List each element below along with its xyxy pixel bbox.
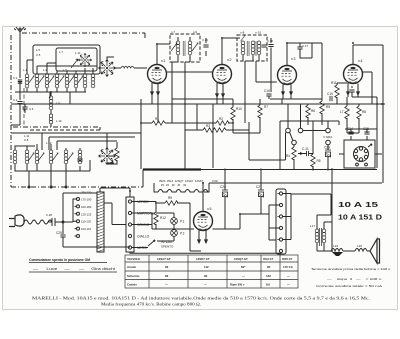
tube V2 12SK7 (213, 65, 232, 84)
vertical x152 V1 pin down (151, 96, 153, 104)
socket pin 3 (364, 155, 367, 158)
svg-text:—: — (287, 274, 290, 278)
svg-text:— Luce — —: — Luce — — Gira dischi (33, 267, 115, 271)
wire to speaker (367, 250, 370, 252)
trimmer C11 (52, 153, 58, 161)
svg-text:#3 #4 #2 #1 #2: #3 #4 #2 #1 #2 (161, 183, 187, 187)
phono socket (354, 147, 369, 162)
vertical x223 (222, 98, 224, 104)
trimmer C mixer (71, 59, 78, 68)
svg-text:C.5: C.5 (36, 53, 41, 57)
junction dot o (140, 122, 142, 124)
wire C16 (268, 97, 270, 100)
coil L7 (83, 74, 87, 88)
svg-text:— dopo il — ≈ 100 v.: — dopo il — ≈ 100 v. (327, 277, 382, 281)
junction dot j (312, 169, 314, 171)
svg-text:L19: L19 (333, 244, 338, 248)
svg-text:SPENTO: SPENTO (161, 245, 174, 249)
wire C29 (63, 222, 130, 247)
capacitor C24 (348, 132, 353, 134)
dash line bottom of front box (13, 126, 100, 128)
tube V3 pins (283, 85, 291, 100)
resistor R3 (203, 128, 226, 132)
wire (19, 82, 21, 100)
label wire corners (42, 133, 57, 150)
svg-text:v.1: v.1 (161, 59, 166, 63)
capacitor C16 (266, 94, 271, 96)
svg-text:Schermo: Schermo (127, 274, 140, 278)
wire osc coil tops (15, 144, 80, 150)
junction dot i (260, 169, 262, 171)
svg-text:—: — (204, 282, 207, 286)
inline capacitor C28 (48, 218, 63, 226)
wire switch (132, 241, 160, 248)
svg-text:R6: R6 (311, 109, 315, 113)
strip contact 2 (128, 211, 131, 214)
svg-text:Corrente anodica totale ≈ 50 m: Corrente anodica totale ≈ 50 mA (316, 284, 382, 288)
pot contact 1 (286, 128, 291, 133)
vertical x217 V2 pin down (216, 98, 218, 104)
coil L13 (35, 150, 39, 164)
svg-text:35Z5 GT: 35Z5 GT (282, 257, 293, 261)
wire L9 (50, 92, 52, 114)
vertical x172 (171, 99, 173, 123)
wire strip to R9 (132, 202, 194, 230)
rectifier tube V5 35Z5 (194, 212, 213, 231)
wire lines into osc box (42, 133, 141, 141)
socket mount pin a (356, 163, 359, 166)
svg-text:35L6 GT: 35L6 GT (263, 257, 274, 261)
pin arrow V4b (357, 88, 360, 95)
wire socket sides (339, 153, 382, 155)
socket pin 4 (359, 158, 362, 161)
T2b secondary capacitor (261, 45, 266, 47)
IF transformer T2 dashed box (237, 35, 267, 61)
junction dots (28, 186, 30, 188)
wire R5 (321, 99, 323, 125)
wire right col to speaker (331, 168, 333, 251)
electrolytic C23 (325, 150, 331, 157)
svg-text:35Z4 35L6 12SQ7 12SA7 12SK: 35Z4 35L6 12SQ7 12SA7 12SK7 (159, 179, 204, 183)
socket pin 2 (364, 149, 367, 152)
wire R8 (347, 104, 359, 133)
mains plug (9, 215, 24, 227)
resistor R9 (165, 201, 178, 205)
resistor R11 (335, 85, 339, 98)
wire C20 (351, 86, 353, 97)
wire V5 plate B+ (213, 214, 270, 229)
svg-text:160-180: 160-180 (81, 205, 92, 209)
svg-text:95: 95 (267, 265, 271, 269)
strip contact 4 (128, 234, 131, 237)
junction dot c (156, 43, 158, 45)
resistor R8 (357, 106, 361, 119)
junction dot m (239, 213, 241, 215)
svg-text:v.3: v.3 (291, 57, 296, 61)
trimmer C9 (28, 153, 34, 161)
wire t5 right (283, 239, 291, 241)
coil L1 (25, 74, 29, 88)
trimmer C4 (38, 76, 44, 84)
svg-text:n.9: n.9 (193, 30, 197, 34)
svg-text:P.2: P.2 (180, 232, 185, 236)
svg-text:P.1: P.1 (180, 220, 185, 224)
pin arrow V5a (198, 236, 201, 243)
fono contact (326, 140, 331, 145)
wire L10 down (50, 124, 52, 127)
wire left col (11, 124, 20, 126)
tap circle 6 (77, 235, 80, 238)
bus y104 left (11, 103, 141, 105)
strip contact t5 (279, 238, 282, 241)
svg-text:C29: C29 (56, 231, 62, 235)
capacitor C19 (330, 96, 332, 101)
trimmer C8 (77, 76, 83, 84)
bus y92 to 104 drops (20, 92, 70, 125)
output transformer secondary (322, 229, 326, 243)
bus y133 left (11, 132, 42, 134)
resistor R13 (115, 148, 119, 161)
pilot lamp P1 (171, 218, 178, 225)
vertical x158 (157, 96, 159, 123)
svg-text:n·8: n·8 (240, 31, 245, 35)
svg-text:12SK7 GT: 12SK7 GT (196, 257, 210, 261)
svg-text:10 A 15: 10 A 15 (338, 202, 378, 209)
svg-text:C.8: C.8 (24, 138, 29, 142)
tap circle 4 (77, 220, 80, 223)
coil L12 (25, 150, 29, 164)
svg-text:—: — (242, 274, 245, 278)
svg-text:INTERR.: INTERR. (161, 240, 173, 244)
svg-text:R5: R5 (326, 105, 330, 109)
field coil L19 (331, 249, 343, 252)
socket pin 6 (354, 149, 357, 152)
socket arrow (368, 144, 372, 147)
svg-text:Anodo: Anodo (127, 265, 136, 269)
tube V2 pins (217, 83, 223, 98)
coil L11 (13, 150, 17, 164)
svg-text:C.6: C.6 (29, 107, 34, 111)
wire C21 (298, 153, 313, 155)
commutator note underline (29, 262, 107, 264)
svg-text:R11: R11 (331, 81, 337, 85)
coil L5 (65, 74, 69, 88)
T1 secondary coil (188, 41, 192, 55)
capacitor C6 (22, 107, 27, 109)
strip contact t4 (279, 226, 282, 229)
B+ rect loop (291, 194, 331, 215)
ballast block hatched (97, 192, 104, 252)
svg-text:Catodo: Catodo (127, 282, 137, 286)
svg-text:R12: R12 (160, 216, 166, 220)
wire antenna lead (19, 36, 21, 78)
vertical x347 V4 pin (346, 97, 348, 104)
junction dot r (381, 103, 383, 105)
strip contact 1 (128, 200, 131, 203)
trimmer C10 (38, 153, 44, 161)
output transformer L17 core (320, 228, 322, 246)
resistor R1 (152, 121, 165, 125)
T1 core (183, 41, 185, 56)
tube V5 pins (199, 230, 206, 243)
vertical x197 (196, 104, 198, 130)
commutator note line2 (29, 271, 117, 273)
pot contact 3 (326, 128, 331, 133)
junction dot k (327, 169, 329, 171)
wire coil bottoms bus (15, 88, 86, 92)
wire lamps (156, 213, 174, 241)
svg-text:A: A (23, 26, 25, 30)
T2b core dash (255, 41, 257, 56)
coil L16 (78, 150, 82, 164)
svg-text:Commutatore spento in posizion: Commutatore spento in posizione OM (29, 258, 90, 262)
svg-text:90: 90 (165, 265, 169, 269)
svg-text:C.14: C.14 (202, 38, 208, 42)
antenna A (14, 27, 26, 36)
junction dot s (129, 190, 131, 192)
capacitor C13 (77, 159, 82, 161)
wire coil tops (27, 60, 93, 74)
svg-text:R2: R2 (219, 117, 223, 121)
wire V3 plate loop (287, 43, 322, 99)
svg-text:110-120: 110-120 (81, 220, 92, 224)
T2 core (247, 41, 249, 56)
svg-text:Ripre 300 v: Ripre 300 v (230, 282, 245, 286)
junction dot e (286, 42, 288, 44)
bus y104 main (141, 103, 385, 105)
coil L8 (91, 74, 95, 88)
junction dot q (376, 103, 378, 105)
T1 primary coil (176, 41, 180, 55)
wire gang2 (107, 133, 117, 164)
T2 trimmer (241, 35, 246, 42)
resistor R5b (311, 154, 315, 167)
svg-text:L.10: L.10 (56, 119, 62, 123)
terminal strip TS2 (276, 189, 286, 254)
connector strip (126, 197, 134, 252)
svg-text:12SQ7 GT: 12SQ7 GT (234, 257, 248, 261)
wire taps (73, 199, 77, 236)
svg-text:R3: R3 (206, 124, 210, 128)
wire speaker line (317, 250, 355, 252)
pin arrow V3b (290, 88, 293, 95)
coil L9 (49, 96, 53, 110)
electrolytic C27 (258, 190, 264, 197)
T1 trimmer C15 (192, 43, 198, 51)
strip contact t3 (279, 215, 282, 218)
svg-text:C16: C16 (264, 89, 270, 93)
junction dot mains (62, 221, 64, 223)
tuning gang capacitor CV1 (99, 60, 116, 77)
tap circle 5 (77, 227, 80, 230)
wire (19, 104, 21, 125)
svg-text:Media frequenza 470 kc/s. Bobi: Media frequenza 470 kc/s. Bobine campo 8… (101, 302, 201, 307)
svg-text:—: — (287, 282, 290, 286)
field coil pole (332, 252, 343, 256)
wire T1 secondary (185, 37, 190, 99)
voice coil L20 (355, 249, 367, 252)
pin arrow V1b (157, 88, 160, 95)
bus y133 mid (233, 132, 260, 134)
wire horizontal y60 (27, 60, 97, 66)
svg-text:R1: R1 (155, 117, 159, 121)
svg-text:n·10: n·10 (255, 31, 261, 35)
pot switch arm (290, 132, 293, 140)
wire t1 to heater line (283, 193, 291, 195)
trimmer star (mixer) (78, 53, 92, 67)
resistor R7 (345, 106, 349, 119)
svg-text:Tensione anodica prima della b: Tensione anodica prima della bobina ≈ 10… (311, 267, 391, 271)
junction dot f (352, 42, 354, 44)
wire strip bottom to right (130, 252, 222, 253)
wire R6 (307, 104, 309, 125)
wire V1 plate (157, 44, 213, 72)
svg-text:100-110: 100-110 (81, 227, 92, 231)
wire C18 (270, 38, 272, 92)
resistor R2 (216, 121, 229, 125)
svg-text:C.28: C.28 (46, 213, 52, 217)
svg-text:L.14: L.14 (75, 51, 81, 55)
vertical x213 (212, 104, 214, 168)
strip contact t6 (279, 249, 282, 252)
svg-text:F.GRA: F.GRA (324, 135, 333, 139)
IF transformer T1 dashed box (170, 34, 200, 62)
tap circle 3 (77, 212, 80, 215)
capacitor C18 (268, 45, 273, 47)
bus y99 (172, 98, 322, 100)
second row: dash partial (30, 129, 100, 131)
svg-text:L17: L17 (310, 224, 315, 228)
output transformer primary (315, 229, 319, 243)
wire V2 plate (222, 38, 240, 65)
T2b primary coil (257, 41, 261, 55)
pin arrow V3a (282, 88, 285, 95)
resistor R10 vertical (231, 107, 235, 120)
wire R7 (346, 104, 348, 133)
svg-text:L.12: L.12 (46, 141, 52, 145)
bus y123 with R1 R2 (141, 122, 233, 124)
svg-text:L7: L7 (340, 110, 344, 114)
bus y130 with R3 (185, 122, 286, 160)
dash line bottom of front box lower (99, 127, 101, 130)
tuning gang capacitor CV2 (99, 148, 116, 165)
svg-text:L.1: L.1 (23, 68, 27, 72)
tube V3 12SQ7 (278, 66, 297, 85)
wire caps to socket (345, 129, 377, 140)
junction dot a (19, 103, 21, 105)
T1 trimmer C14 (171, 43, 177, 51)
vertical x141 (140, 99, 142, 169)
capacitor C16m (203, 45, 208, 47)
svg-text:—: — (165, 282, 168, 286)
capacitor C21 (307, 151, 309, 156)
vertical x383 (382, 104, 384, 183)
chassis dash-dot box (RF unit) (11, 33, 145, 187)
wire y97 right (352, 96, 377, 98)
trimmer C3 (28, 76, 34, 84)
voltage table frame (125, 255, 298, 288)
svg-text:L.3: L.3 (43, 68, 47, 72)
svg-text:82: 82 (165, 274, 169, 278)
tube V1 pins (152, 83, 158, 96)
svg-text:R7: R7 (264, 105, 268, 109)
svg-text:R9: R9 (168, 196, 172, 200)
strip contact 3 (128, 223, 131, 226)
wire T2 bottoms (243, 55, 277, 123)
wire osc coil bottom bus (15, 164, 90, 171)
wire C23 (327, 145, 329, 170)
wire C26 (224, 170, 226, 230)
wire T1 primary top (177, 37, 179, 62)
tube V4 pins (348, 83, 358, 97)
capacitor C25 (364, 132, 369, 134)
svg-text:L.7: L.7 (59, 50, 63, 54)
wire V5 top (202, 183, 204, 212)
svg-text:L.9: L.9 (56, 101, 60, 105)
pin arrow V1a (151, 88, 154, 95)
ground bus thin (143, 170, 377, 188)
coil L3 (45, 74, 49, 88)
junction dot l (331, 250, 333, 252)
coil L2 (35, 74, 39, 88)
svg-text:R8: R8 (362, 110, 366, 114)
svg-text:v.5: v.5 (207, 207, 212, 211)
coil L4 (55, 74, 59, 88)
resistor R12 (154, 212, 158, 225)
wire ballast top to strip (100, 188, 130, 225)
tap circle 1 (77, 198, 80, 201)
svg-text:GIALLO: GIALLO (137, 235, 150, 239)
trimmer C12 (67, 153, 73, 161)
wire R4 down (293, 159, 295, 170)
svg-text:C.17: C.17 (302, 44, 308, 48)
svg-text:C23: C23 (324, 146, 330, 150)
socket pin 1 (359, 147, 362, 150)
wire padder to V1 (118, 67, 147, 69)
trimmer C5 (48, 76, 54, 84)
wire R5b (312, 121, 314, 170)
svg-text:R4: R4 (286, 154, 290, 158)
inner RF box (33, 45, 100, 74)
svg-text:v.2: v.2 (227, 58, 232, 62)
capacitor C2 (17, 102, 22, 104)
svg-text:10 A 151 D: 10 A 151 D (338, 215, 382, 222)
svg-text:112: 112 (204, 265, 209, 269)
table row lines (125, 262, 298, 280)
wire T1 to bus (172, 62, 178, 99)
svg-text:L.5: L.5 (36, 48, 40, 52)
svg-text:VALVOLE: VALVOLE (127, 257, 140, 261)
junction dot d (221, 37, 223, 39)
wire pot (288, 104, 328, 147)
junction dot h (224, 169, 226, 171)
phono socket box (344, 140, 375, 168)
coil L10 (49, 114, 52, 124)
wire C6 (24, 104, 26, 113)
socket mount pin b (365, 163, 368, 166)
junction dot g (202, 182, 204, 184)
junction dot b (50, 91, 52, 93)
pin arrow V5b (205, 236, 208, 243)
vertical x282 V3 pin (281, 99, 283, 104)
wire drops to chassis dash (29, 160, 90, 187)
pot contact 2 (298, 128, 303, 133)
heater chain resistor bumps (158, 190, 208, 193)
pin arrow V2b (222, 90, 225, 97)
strip contact t2 (279, 203, 282, 206)
svg-text:90: 90 (204, 274, 208, 278)
svg-text:R5: R5 (317, 159, 321, 163)
